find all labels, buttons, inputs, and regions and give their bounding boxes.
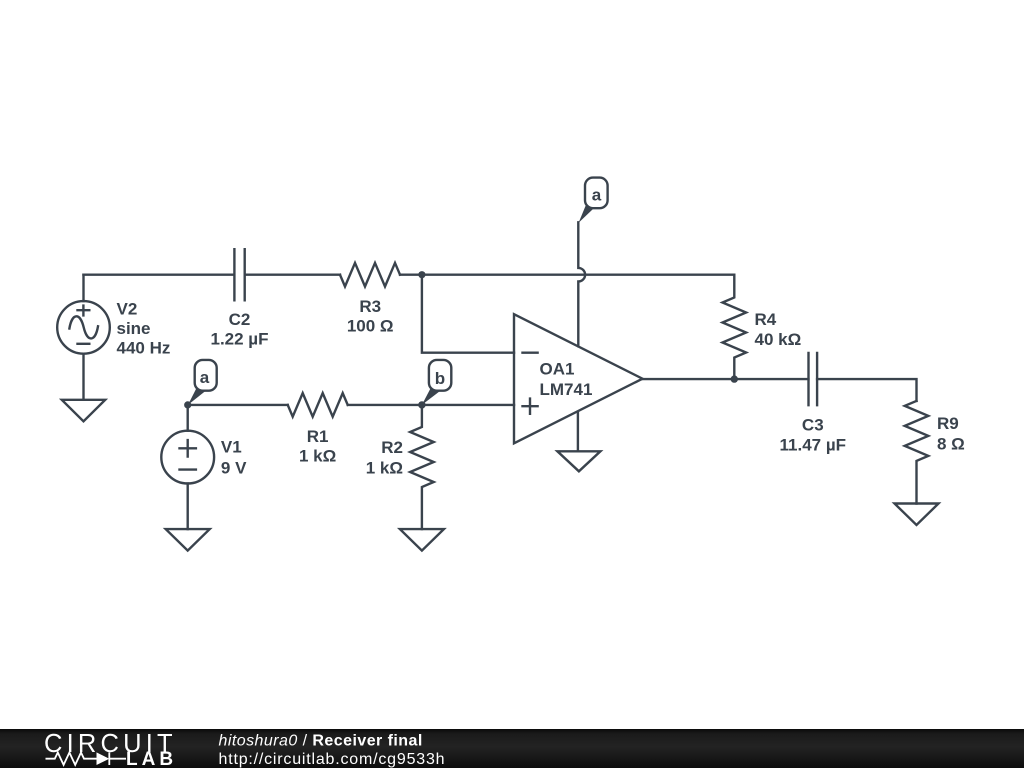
resistor R1 bbox=[288, 393, 348, 417]
source V1 bbox=[161, 405, 214, 529]
svg-text:1 kΩ: 1 kΩ bbox=[299, 447, 336, 466]
capacitor C2 bbox=[234, 249, 244, 300]
wire top from R3 to R4 (through node and under hop) bbox=[400, 274, 734, 276]
svg-text:40 kΩ: 40 kΩ bbox=[755, 330, 802, 349]
ground under R9 bbox=[895, 504, 939, 526]
svg-text:R2: R2 bbox=[381, 438, 403, 457]
svg-text:C2: C2 bbox=[229, 310, 251, 329]
resistor R3 bbox=[340, 263, 400, 287]
logo diode bbox=[97, 752, 110, 765]
ground under V1 bbox=[166, 529, 210, 551]
svg-text:440 Hz: 440 Hz bbox=[117, 339, 171, 358]
junction node output bbox=[731, 375, 738, 382]
svg-text:R3: R3 bbox=[359, 297, 381, 316]
ground under V2 bbox=[62, 400, 105, 422]
resistor R4 bbox=[723, 275, 747, 379]
wire from R3 node down to inverting input bbox=[422, 275, 514, 353]
resistor R9 bbox=[905, 401, 929, 504]
svg-text:R4: R4 bbox=[755, 310, 777, 329]
svg-text:a: a bbox=[200, 368, 210, 387]
wire top from C2 to R3 bbox=[245, 274, 340, 276]
svg-text:LAB: LAB bbox=[126, 749, 177, 768]
op-amp plus sign bbox=[521, 397, 539, 415]
wire op-amp output to C3 bbox=[643, 378, 809, 380]
svg-text:R9: R9 bbox=[937, 414, 959, 433]
svg-text:OA1: OA1 bbox=[540, 359, 575, 378]
op-amp minus sign bbox=[521, 352, 539, 354]
svg-text:http://circuitlab.com/cg9533h: http://circuitlab.com/cg9533h bbox=[219, 751, 446, 768]
svg-text:1 kΩ: 1 kΩ bbox=[366, 459, 403, 478]
svg-text:a: a bbox=[592, 185, 602, 204]
svg-text:9 V: 9 V bbox=[221, 458, 247, 477]
svg-text:hitoshura0 / Receiver final: hitoshura0 / Receiver final bbox=[219, 732, 423, 749]
junction node b bbox=[418, 401, 425, 408]
resistor R2 bbox=[410, 405, 434, 529]
footer bar bbox=[0, 729, 1024, 768]
wire C3 to R9 bbox=[817, 379, 916, 401]
logo resistor squiggle bbox=[46, 753, 97, 765]
svg-text:11.47 µF: 11.47 µF bbox=[780, 435, 847, 454]
ground under R2 bbox=[400, 529, 444, 551]
svg-text:8 Ω: 8 Ω bbox=[937, 435, 965, 454]
wire a-node to R1 bbox=[188, 404, 288, 406]
capacitor C3 bbox=[809, 353, 818, 405]
op-amp V- pin to ground bbox=[577, 412, 579, 451]
net flag a tail (left) bbox=[188, 389, 206, 405]
svg-text:R1: R1 bbox=[307, 427, 329, 446]
net flag a tail (top) bbox=[579, 206, 594, 223]
source V2 bbox=[57, 275, 110, 400]
ground under op-amp bbox=[557, 451, 600, 471]
net flag b tail bbox=[422, 389, 440, 405]
svg-text:LM741: LM741 bbox=[540, 380, 593, 399]
net flag a box (left) bbox=[195, 360, 217, 391]
svg-text:V2: V2 bbox=[117, 300, 138, 319]
svg-text:b: b bbox=[435, 369, 445, 388]
svg-text:C3: C3 bbox=[802, 416, 824, 435]
logo diode bar and lead bbox=[109, 752, 126, 765]
wire R1 to b-node to op-amp plus input bbox=[348, 404, 514, 406]
svg-text:100 Ω: 100 Ω bbox=[347, 317, 394, 336]
junction node after R3 bbox=[418, 271, 425, 278]
svg-text:sine: sine bbox=[117, 319, 151, 338]
junction node a bbox=[184, 401, 191, 408]
wire top from V2 to C2 bbox=[84, 274, 235, 276]
op-amp OA1 triangle bbox=[514, 314, 643, 443]
wire net a down with hop over top wire bbox=[578, 222, 585, 346]
svg-text:1.22 µF: 1.22 µF bbox=[211, 330, 269, 349]
net flag b box bbox=[429, 360, 451, 391]
net flag a box (top) bbox=[585, 178, 608, 209]
svg-text:V1: V1 bbox=[221, 438, 242, 457]
